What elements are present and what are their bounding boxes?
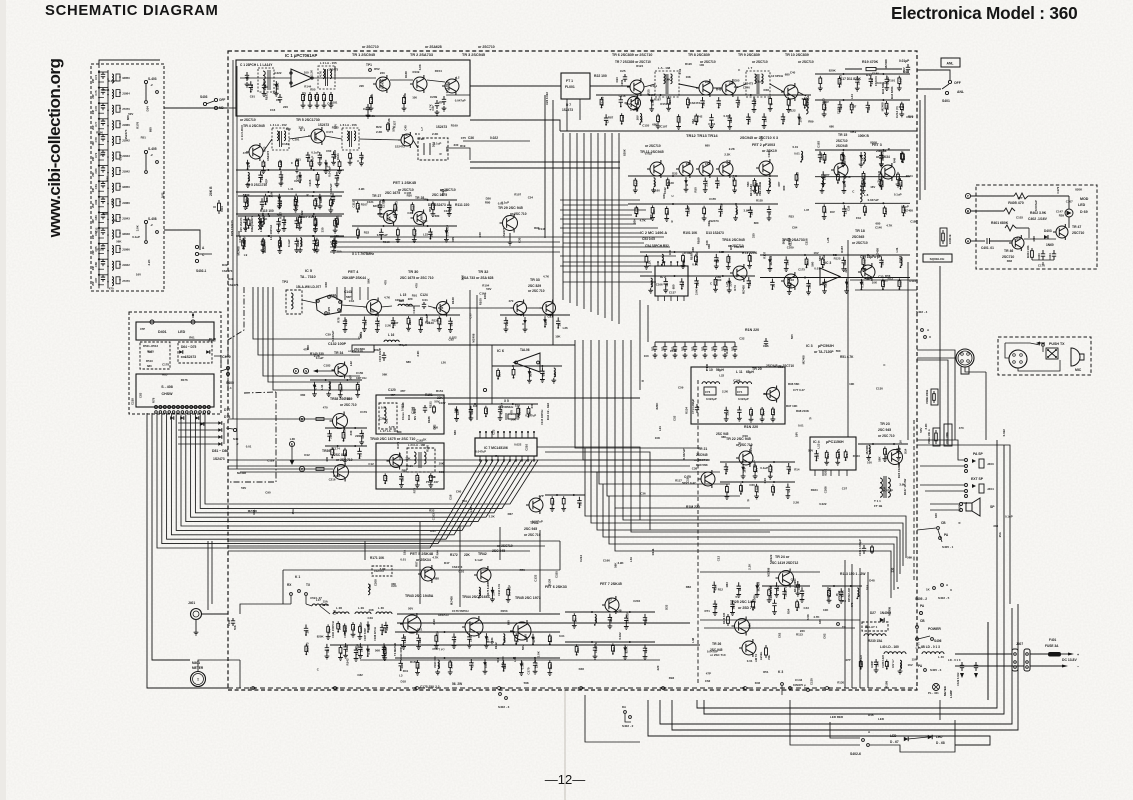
svg-text:56K: 56K [802, 97, 808, 101]
IC6 triangle [514, 353, 540, 372]
diode R146 [728, 278, 730, 288]
terminal B mid [299, 416, 304, 421]
IC7 top pin [533, 432, 535, 438]
resistor C77 [449, 660, 452, 670]
arrow minus [1062, 665, 1068, 668]
svg-text:0.047uP: 0.047uP [877, 81, 888, 85]
transistor Q2 NB [401, 134, 413, 146]
svg-text:C169: C169 [787, 246, 794, 250]
svg-text:R85: R85 [162, 373, 168, 377]
svg-text:330: 330 [729, 118, 733, 123]
resistor C37 [244, 194, 247, 204]
svg-text:D42: D42 [407, 414, 411, 420]
svg-text:R108 330: R108 330 [722, 612, 726, 624]
svg-text:C141: C141 [898, 256, 902, 263]
svg-text:C59: C59 [678, 386, 684, 390]
svg-text:C119: C119 [685, 476, 689, 483]
resistor C10 [836, 450, 839, 460]
wire C to TR39 [228, 468, 333, 470]
svg-text:C 10 0.0047: C 10 0.0047 [445, 80, 449, 96]
capacitor C54 [262, 81, 266, 91]
resistor C162 [438, 316, 441, 326]
svg-text:C214: C214 [579, 555, 583, 562]
resistor C150 [880, 179, 883, 189]
svg-text:C53: C53 [672, 415, 676, 421]
svg-text:M401: M401 [192, 661, 200, 665]
TX chain rails [397, 622, 690, 624]
svg-text:R1 5.6K: R1 5.6K [370, 94, 374, 104]
wire staircase 1 [253, 287, 360, 339]
capacitor L6 [724, 463, 728, 473]
svg-text:D33: D33 [664, 604, 668, 610]
resistor C74 [879, 172, 882, 182]
svg-text:47P: 47P [140, 327, 145, 331]
svg-text:0.047uP: 0.047uP [455, 98, 466, 102]
capacitor R181 [842, 257, 846, 267]
svg-text:47P: 47P [748, 281, 752, 286]
capacitor R84 [331, 151, 335, 160]
diode R199 [275, 81, 277, 91]
svg-text:R181: R181 [377, 212, 384, 216]
wire vertical osc [344, 287, 346, 300]
capacitor C159 [335, 172, 339, 182]
wire display top [192, 312, 194, 318]
svg-text:3.9K: 3.9K [806, 613, 810, 620]
svg-text:TR 8 2SC839: TR 8 2SC839 [688, 53, 710, 57]
svg-text:470: 470 [509, 299, 514, 303]
svg-text:R113: R113 [796, 633, 803, 637]
transformer L2 [318, 66, 335, 89]
svg-text:R78: R78 [151, 397, 155, 403]
svg-text:S405 - 1: S405 - 1 [942, 545, 954, 549]
svg-text:4.7K: 4.7K [278, 220, 282, 227]
svg-text:TR45 2SC 1973: TR45 2SC 1973 [515, 596, 541, 600]
potentiometer VR2 RF GAIN [756, 183, 759, 196]
dashed separator speaker area [913, 420, 915, 580]
capacitor C105 [556, 317, 560, 327]
svg-text:16V: 16V [870, 185, 875, 189]
svg-text:0.047uP: 0.047uP [720, 203, 724, 214]
crystal ladder row 7 [98, 164, 100, 180]
inductor C103 [801, 151, 803, 160]
transistor TR14 [719, 162, 733, 176]
svg-text:820K: 820K [296, 218, 300, 226]
IC7 bottom pin [509, 456, 511, 462]
junction diamond [332, 686, 338, 689]
capacitor R149 [624, 614, 628, 624]
svg-text:C403: C403 [1037, 253, 1041, 260]
svg-text:16V: 16V [370, 310, 375, 314]
svg-text:15A: 15A [594, 617, 598, 623]
crystal X5 [508, 414, 516, 419]
svg-text:C140: C140 [667, 181, 674, 185]
transistor TR21 [701, 472, 715, 486]
svg-text:R172: R172 [450, 553, 458, 557]
svg-text:R190: R190 [96, 131, 103, 135]
svg-text:470: 470 [681, 282, 685, 287]
svg-text:R146: R146 [538, 227, 545, 231]
svg-text:C53 0.05: C53 0.05 [642, 237, 655, 241]
svg-text:56K: 56K [388, 215, 392, 221]
resistor L34 [294, 197, 297, 207]
svg-text:C121: C121 [367, 200, 374, 204]
svg-text:0.1uP: 0.1uP [657, 115, 661, 123]
svg-text:R155: R155 [756, 199, 763, 203]
svg-text:S402 - 2: S402 - 2 [622, 724, 634, 728]
svg-text:4.7K: 4.7K [640, 219, 647, 223]
svg-text:0.01: 0.01 [246, 445, 252, 449]
crystal ladder row 4 [98, 117, 100, 133]
svg-text:C155: C155 [554, 571, 558, 578]
wire bus to TX area 1 [152, 413, 190, 660]
svg-text:C107: C107 [1066, 199, 1073, 203]
svg-text:IC 1 μPC7061AP: IC 1 μPC7061AP [285, 53, 318, 58]
svg-text:330: 330 [782, 117, 786, 122]
svg-text:C210: C210 [398, 453, 402, 460]
svg-text:C30: C30 [517, 237, 521, 243]
inductor C167 [263, 216, 265, 225]
capacitor R63 [703, 178, 707, 188]
resistor C31 [419, 317, 422, 327]
svg-text:C62: C62 [112, 218, 118, 222]
svg-text:0.022: 0.022 [243, 239, 247, 247]
antenna jack J401 [191, 609, 202, 620]
IC4 pin [830, 470, 832, 476]
svg-text:10K: 10K [632, 218, 636, 224]
svg-text:TR 34: TR 34 [334, 351, 343, 355]
svg-text:470: 470 [959, 426, 964, 430]
svg-text:L 4 LA - 152: L 4 LA - 152 [270, 123, 287, 127]
svg-text:15LA-W6 LD-077: 15LA-W6 LD-077 [296, 285, 321, 289]
svg-text:680: 680 [147, 364, 152, 368]
svg-text:680: 680 [507, 620, 511, 625]
wire bus 5 [176, 413, 504, 530]
svg-text:R44: R44 [435, 550, 439, 556]
svg-text:0.047uP: 0.047uP [507, 585, 511, 596]
svg-text:820K: 820K [296, 239, 300, 247]
resistor R90 [677, 114, 680, 124]
capacitor R183 [318, 152, 322, 161]
svg-text:TR 4 2SC945: TR 4 2SC945 [243, 124, 265, 128]
svg-text:or 2SC 710: or 2SC 710 [510, 212, 527, 216]
svg-text:R151: R151 [429, 401, 433, 408]
svg-text:C214 0.01: C214 0.01 [497, 583, 501, 596]
svg-text:LED: LED [878, 717, 885, 721]
resistor R67 [548, 634, 551, 644]
transistor TR44 [465, 618, 483, 636]
resistor R19 [845, 68, 862, 70]
diode R99 [314, 382, 316, 392]
svg-text:C241 0.039μP: C241 0.039μP [858, 539, 862, 556]
svg-text:X 5: X 5 [504, 399, 509, 403]
svg-text:C73: C73 [705, 390, 711, 394]
mic plug pin [1013, 354, 1016, 357]
wire [325, 427, 367, 429]
capacitor C167 [724, 342, 726, 344]
capacitor R151 [717, 97, 721, 107]
svg-text:C13: C13 [717, 556, 721, 562]
svg-text:R22 100: R22 100 [594, 74, 607, 78]
resistor R32 [316, 238, 319, 248]
audio transformer T1 [880, 478, 882, 497]
svg-text:47P: 47P [327, 628, 331, 633]
svg-text:4.7K: 4.7K [384, 296, 391, 300]
svg-text:TR 33: TR 33 [530, 278, 540, 282]
wire long rail y131 [560, 130, 917, 132]
svg-text:1S2473: 1S2473 [222, 269, 233, 273]
svg-text:C160: C160 [653, 188, 660, 192]
svg-text:2.2K: 2.2K [647, 260, 651, 267]
svg-text:J7370: J7370 [122, 107, 130, 111]
capacitor R180 [838, 101, 842, 111]
inductor C52 [554, 368, 556, 377]
IC7 bottom pin [521, 456, 523, 462]
svg-text:C133: C133 [533, 574, 537, 581]
svg-text:PA SP: PA SP [973, 452, 984, 456]
svg-text:U: U [950, 588, 952, 592]
transistor TR7 [628, 97, 641, 110]
svg-text:56K: 56K [430, 231, 434, 237]
svg-text:TR 5 2SC1730: TR 5 2SC1730 [296, 118, 320, 122]
svg-text:0.022: 0.022 [279, 160, 283, 168]
inductor C213 [247, 198, 249, 207]
svg-text:3.9K: 3.9K [359, 187, 366, 191]
svg-text:C95: C95 [791, 578, 797, 582]
capacitor C94 [295, 238, 299, 248]
svg-text:L26: L26 [826, 237, 830, 242]
crystal ladder row 13 [98, 257, 100, 273]
capacitor C133 [306, 152, 310, 161]
diode C108 [278, 194, 280, 204]
svg-text:0.01: 0.01 [459, 569, 465, 573]
svg-text:470: 470 [510, 410, 514, 415]
svg-text:0.1uP: 0.1uP [521, 661, 525, 669]
wire audio bundle 1 [585, 448, 906, 558]
resistor R45 [298, 215, 301, 225]
svg-text:R513: R513 [146, 359, 153, 363]
svg-text:10K: 10K [655, 436, 661, 440]
mic switch contacts [1042, 344, 1045, 347]
wire vertical osc [367, 287, 369, 300]
svg-text:C83: C83 [138, 392, 142, 398]
svg-text:J1866: J1866 [122, 123, 130, 127]
svg-text:R33: R33 [789, 214, 795, 218]
svg-text:10K: 10K [483, 293, 487, 299]
svg-text:022: 022 [681, 346, 685, 351]
svg-text:56K: 56K [843, 259, 847, 265]
svg-text:R162: R162 [494, 642, 498, 649]
resistor R40 [573, 613, 576, 623]
svg-text:R125: R125 [834, 257, 841, 261]
svg-text:VR16 500: VR16 500 [501, 656, 505, 668]
inductor C80 [900, 660, 902, 669]
capacitor R55 [896, 445, 900, 455]
resistor C185 [295, 194, 298, 204]
FET3 symbol [881, 165, 895, 179]
capacitor C88 [787, 463, 791, 473]
svg-text:MZ408: MZ408 [884, 59, 888, 68]
wires TX bottom rails [239, 660, 241, 688]
IC7 top pin [485, 432, 487, 438]
svg-text:330: 330 [891, 567, 895, 572]
wire right edge loops top [917, 350, 955, 440]
svg-text:D33: D33 [672, 171, 678, 175]
diode R110 [367, 621, 369, 631]
svg-text:C208: C208 [363, 107, 371, 111]
IC2 pin [677, 262, 679, 266]
svg-text:C108 0.022: C108 0.022 [860, 654, 863, 668]
junction diamond [824, 686, 830, 689]
IC5 pin [325, 312, 328, 315]
svg-text:0.047uP: 0.047uP [329, 184, 333, 195]
svg-text:0.01: 0.01 [119, 154, 123, 160]
wire [760, 254, 910, 256]
svg-text:R164: R164 [906, 174, 913, 178]
terminal E symbol [289, 441, 294, 446]
svg-text:0.047uP: 0.047uP [525, 414, 536, 418]
wire staircase audio 2 [583, 340, 710, 460]
svg-text:16V: 16V [549, 664, 553, 669]
inductor C182 [595, 614, 597, 623]
svg-text:R151: R151 [436, 389, 444, 393]
svg-text:1S2473: 1S2473 [380, 79, 384, 89]
svg-text:MZ408: MZ408 [749, 444, 753, 453]
svg-text:R10: R10 [345, 396, 351, 400]
resistor R60 [305, 644, 308, 654]
resistor R159 [527, 406, 530, 416]
transistor TR17 [784, 274, 798, 288]
IC5 body polygon [316, 295, 342, 315]
svg-text:15A: 15A [270, 191, 274, 197]
svg-text:TR16 2SC945: TR16 2SC945 [722, 238, 745, 242]
wire rail mid 162 [470, 161, 620, 163]
svg-text:or 2SC710: or 2SC710 [852, 241, 868, 245]
resistor C16 [753, 178, 756, 188]
svg-text:R86: R86 [103, 212, 109, 216]
svg-text:TR40 2SC 1675 or 2SC 710: TR40 2SC 1675 or 2SC 710 [370, 437, 415, 441]
svg-text:680: 680 [445, 146, 449, 151]
resistor C199 [279, 160, 282, 169]
capacitor C118 [730, 600, 734, 610]
wire bus 2 [162, 413, 488, 544]
diode box D45 [372, 566, 392, 576]
diode D403 [1044, 235, 1048, 239]
transistor TR13 [699, 162, 713, 176]
svg-text:0.01: 0.01 [400, 557, 406, 561]
resistor R55 [485, 406, 488, 416]
connector J407 housing 1 [1012, 649, 1018, 671]
wire vertical squelch feed [847, 240, 849, 437]
capacitor C100 [382, 352, 386, 361]
open contact [483, 388, 486, 391]
junction diamond [660, 686, 666, 689]
inductor R28 [662, 254, 664, 263]
svg-text:100: 100 [644, 354, 649, 358]
svg-text:100: 100 [412, 95, 417, 99]
resistor R198 [825, 450, 828, 460]
svg-text:20P: 20P [92, 203, 95, 208]
resistor R189 [612, 643, 615, 653]
svg-text:PA: PA [918, 664, 923, 668]
svg-text:R99: R99 [962, 501, 968, 505]
svg-text:0.047uP: 0.047uP [626, 612, 630, 623]
svg-text:820K: 820K [740, 484, 744, 492]
svg-text:IC 7 MC145106: IC 7 MC145106 [484, 446, 508, 450]
svg-text:L44: L44 [320, 384, 324, 389]
svg-text:C140: C140 [412, 306, 416, 313]
resistor D33 [863, 205, 866, 215]
chassis boundary dash-dot [228, 287, 244, 392]
svg-text:TR12 TR13 TR14: TR12 TR13 TR14 [686, 133, 718, 138]
svg-text:MZ408: MZ408 [420, 317, 424, 327]
capacitor R150 [619, 96, 623, 106]
svg-text:S402-6: S402-6 [850, 752, 861, 756]
svg-text:220: 220 [534, 663, 538, 668]
svg-text:L25: L25 [725, 281, 729, 286]
capacitor C162 [715, 177, 719, 187]
capacitor R143 [782, 588, 786, 598]
capacitor C26 [540, 367, 544, 377]
capacitor R130 [312, 237, 316, 247]
svg-text:R51: R51 [763, 670, 769, 674]
svg-text:330: 330 [750, 411, 754, 416]
wire vertical bus 1 [562, 133, 564, 300]
svg-text:10K: 10K [100, 153, 106, 157]
svg-text:C155: C155 [648, 93, 655, 97]
svg-text:D21: D21 [417, 628, 423, 632]
svg-text:680: 680 [286, 127, 291, 131]
svg-text:100: 100 [897, 176, 901, 181]
svg-text:022: 022 [711, 346, 715, 351]
svg-text:S403: S403 [200, 95, 208, 99]
svg-text:15A: 15A [402, 549, 406, 555]
capacitor C168 [734, 342, 736, 344]
capacitor R52 [781, 113, 785, 123]
wire crossing 5 [560, 236, 664, 238]
svg-text:C16: C16 [280, 178, 284, 184]
svg-text:16V: 16V [742, 467, 746, 472]
svg-text:100: 100 [867, 460, 872, 464]
svg-text:680: 680 [652, 123, 657, 127]
svg-text:820K: 820K [373, 204, 381, 208]
capacitor C2 [278, 94, 282, 103]
diode C195 [528, 368, 530, 378]
svg-text:C19: C19 [847, 205, 851, 211]
svg-text:C2: C2 [276, 98, 280, 102]
wire crossing 7 [560, 255, 676, 257]
capacitor R55 [379, 229, 383, 239]
resistor C143 [823, 204, 826, 214]
svg-text:www.cibi-collection.org: www.cibi-collection.org [45, 59, 64, 239]
svg-text:47P: 47P [247, 162, 251, 167]
svg-text:4.7K: 4.7K [543, 274, 550, 278]
svg-text:R404 10K: R404 10K [1026, 245, 1030, 258]
svg-text:0.047uP: 0.047uP [475, 450, 486, 454]
svg-text:0.022: 0.022 [403, 636, 407, 644]
svg-text:C77: C77 [468, 313, 472, 319]
svg-text:D27: D27 [870, 611, 876, 615]
svg-text:T 1 1: T 1 1 [874, 499, 881, 503]
svg-text:R198: R198 [885, 681, 889, 688]
svg-text:C105 0.022: C105 0.022 [882, 654, 885, 668]
junction diamond [250, 686, 256, 689]
capacitor D52 [712, 582, 716, 592]
svg-text:C98 32V-10: C98 32V-10 [769, 586, 773, 600]
wire vertical osc [359, 287, 361, 300]
svg-text:C103: C103 [1016, 215, 1023, 219]
capacitor C92 [772, 600, 776, 610]
svg-text:C179: C179 [382, 201, 386, 208]
